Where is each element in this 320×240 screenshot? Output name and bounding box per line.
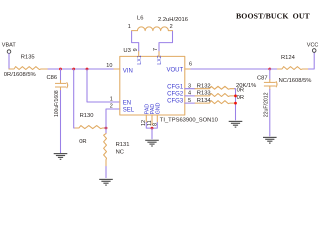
pin 9 LX1 stub xyxy=(133,48,139,56)
wire VIN rail xyxy=(48,68,119,70)
svg-text:1: 1 xyxy=(128,24,131,30)
wire R130 to junction xyxy=(105,127,106,129)
node junction C86 xyxy=(59,68,62,71)
node junction R130/R131/SEL xyxy=(105,127,108,130)
svg-text:5: 5 xyxy=(188,98,191,104)
svg-text:LX1: LX1 xyxy=(137,55,143,64)
node junction CFG2 xyxy=(234,95,237,98)
wire junction to R124 xyxy=(270,68,278,70)
svg-text:LX2: LX2 xyxy=(157,55,163,64)
pin 10 VIN stub xyxy=(106,63,120,69)
wire R131 top stub xyxy=(105,128,107,134)
svg-text:R132: R132 xyxy=(197,84,211,90)
svg-text:BOOST/BUCK OUT: BOOST/BUCK OUT xyxy=(236,12,311,21)
wire EN xyxy=(87,69,120,102)
svg-text:C86: C86 xyxy=(47,75,58,81)
pin 12 pad stub xyxy=(141,115,147,126)
svg-text:VCC: VCC xyxy=(307,43,319,49)
svg-text:R135: R135 xyxy=(21,54,35,60)
svg-text:VIN: VIN xyxy=(123,68,133,74)
svg-text:4: 4 xyxy=(188,91,191,97)
svg-text:0R: 0R xyxy=(79,139,86,145)
resistor R134 xyxy=(185,98,235,104)
svg-text:7: 7 xyxy=(153,48,159,51)
wire CFG common xyxy=(234,89,237,120)
svg-text:R124: R124 xyxy=(281,55,296,61)
svg-text:2: 2 xyxy=(110,103,113,109)
wire VBAT to R135 xyxy=(8,54,10,69)
wire C86 top xyxy=(60,69,62,81)
wire VOUT rail xyxy=(186,68,270,70)
node junction C87 xyxy=(268,68,271,71)
node junction EN xyxy=(86,68,89,71)
ground under CFG resistors xyxy=(229,121,243,127)
resistor R132 xyxy=(185,83,235,89)
inductor L6 xyxy=(128,16,188,31)
svg-text:NC: NC xyxy=(116,149,124,155)
wire row to CFG common xyxy=(234,102,237,104)
wire R131 to ground xyxy=(105,167,107,178)
pin 8 pad stub xyxy=(152,115,158,126)
node junction R130 xyxy=(72,68,75,71)
svg-text:R130: R130 xyxy=(80,113,94,119)
svg-text:SEL: SEL xyxy=(123,107,135,113)
svg-text:GND: GND xyxy=(155,102,161,114)
svg-text:1: 1 xyxy=(110,96,113,102)
svg-text:CFG3: CFG3 xyxy=(167,99,184,105)
svg-text:TI_TPS63900_SON10: TI_TPS63900_SON10 xyxy=(160,118,218,124)
svg-text:0R/1608/5%: 0R/1608/5% xyxy=(4,72,36,78)
wire LX2 to L6 xyxy=(159,31,173,51)
resistor R131 xyxy=(104,134,130,167)
svg-text:3: 3 xyxy=(188,83,191,89)
svg-text:100uF/1608: 100uF/1608 xyxy=(54,90,60,117)
svg-text:0R: 0R xyxy=(237,88,244,94)
ground under C87 xyxy=(263,137,277,143)
op-amp U3 TPS63900 box xyxy=(120,56,185,115)
svg-text:R131: R131 xyxy=(116,142,130,148)
capacitor C87 xyxy=(257,75,277,117)
svg-text:22uF/2012: 22uF/2012 xyxy=(263,92,269,117)
wire pad bracket xyxy=(146,123,157,129)
svg-text:NC/1608/5%: NC/1608/5% xyxy=(279,78,312,84)
svg-text:EN: EN xyxy=(123,100,131,106)
svg-text:CFG2: CFG2 xyxy=(167,92,184,98)
svg-text:L6: L6 xyxy=(137,16,143,22)
resistor R133 xyxy=(185,91,235,97)
ground under R131 xyxy=(99,179,113,185)
pin 6 stub xyxy=(185,62,192,69)
svg-text:2.2uH/2016: 2.2uH/2016 xyxy=(158,17,188,23)
ground under C86 xyxy=(54,154,68,160)
wire pad to ground xyxy=(151,128,153,139)
wire C87 to ground xyxy=(269,90,271,137)
svg-text:6: 6 xyxy=(189,62,192,68)
wire SEL xyxy=(106,109,120,128)
node junction CFG3 xyxy=(234,102,237,105)
svg-text:2: 2 xyxy=(170,24,173,30)
wire row to CFG common xyxy=(234,95,237,97)
wire R124 to VCC xyxy=(309,52,315,69)
pin 11 pad stub xyxy=(147,115,153,126)
svg-text:0R: 0R xyxy=(237,95,244,101)
port VBAT xyxy=(2,42,17,53)
ground under U3 pads xyxy=(145,140,159,146)
pin 7 LX2 stub xyxy=(153,48,159,56)
svg-text:U3: U3 xyxy=(123,48,130,54)
svg-text:9: 9 xyxy=(133,48,139,51)
port VCC xyxy=(307,43,319,53)
resistor R124 xyxy=(277,55,311,84)
svg-text:R133: R133 xyxy=(197,91,211,97)
wire LX1 to L6 xyxy=(132,31,139,51)
resistor R135 xyxy=(4,54,48,78)
capacitor C86 xyxy=(47,75,68,117)
wire C87 top xyxy=(269,69,271,80)
svg-text:R134: R134 xyxy=(197,98,212,104)
svg-text:VOUT: VOUT xyxy=(167,67,184,73)
node pad junction xyxy=(151,127,154,130)
wire R130 drop xyxy=(74,69,77,128)
svg-text:C87: C87 xyxy=(257,75,268,81)
resistor R130 xyxy=(75,113,105,145)
svg-text:10: 10 xyxy=(106,63,112,69)
svg-text:VBAT: VBAT xyxy=(2,42,17,48)
svg-text:CFG1: CFG1 xyxy=(167,85,184,91)
wire C86 to ground xyxy=(60,91,62,153)
